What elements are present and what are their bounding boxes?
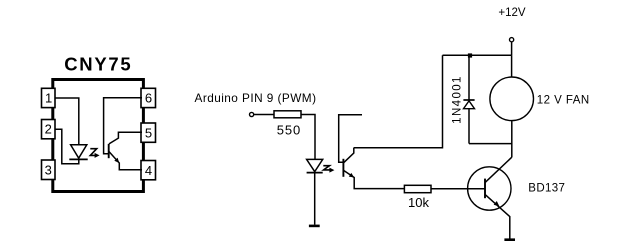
wire fan bottom to Q3 collector: [511, 121, 513, 158]
+12V rail: [443, 54, 512, 56]
ground (BD137 emitter): [504, 238, 515, 241]
phototransistor Q2: [343, 148, 404, 189]
svg-text:4: 4: [145, 163, 152, 178]
svg-text:+12V: +12V: [498, 7, 526, 19]
light arrow (package): [90, 149, 99, 158]
internal phototransistor base wire to pin 6: [104, 98, 142, 154]
svg-text:CNY75: CNY75: [64, 54, 132, 75]
wire R2 to Q3 base: [431, 188, 485, 190]
wire collector to +12V rail: [354, 55, 443, 147]
package body U1: [53, 80, 144, 192]
internal phototransistor Q1: [109, 132, 142, 170]
svg-text:12 V FAN: 12 V FAN: [537, 94, 590, 106]
light arrow (schematic): [323, 166, 334, 173]
svg-text:1N4001: 1N4001: [452, 75, 464, 124]
wire LED cathode to ground: [314, 173, 316, 225]
optocoupler LED D2: [307, 159, 323, 172]
resistor R2 10k: [404, 185, 431, 210]
internal LED D1 (emitter diode): [69, 145, 87, 160]
transistor Q3 BD137: [468, 157, 566, 238]
phototransistor base stub: [339, 115, 362, 163]
resistor R1 550: [274, 111, 301, 138]
wire pin1 to internal LED anode: [55, 98, 79, 145]
ground (LED): [309, 225, 320, 228]
pin 3 box: [42, 160, 56, 180]
pin 5 box: [141, 123, 156, 142]
svg-text:1: 1: [45, 90, 52, 105]
junction dot: [468, 53, 472, 57]
svg-text:5: 5: [145, 125, 152, 140]
pin 2 box: [42, 120, 56, 139]
input terminal: [250, 112, 254, 116]
wire rail to fan top: [511, 55, 513, 77]
pin 6 box: [141, 88, 156, 107]
wire LED cathode to pin2: [55, 129, 79, 164]
diode D3 1N4001: [463, 58, 474, 144]
fan M1: [490, 77, 590, 121]
svg-text:2: 2: [45, 122, 52, 137]
wire diode bottom to fan branch: [469, 143, 512, 145]
svg-text:BD137: BD137: [528, 182, 565, 194]
svg-text:550: 550: [277, 123, 301, 138]
+12V terminal: [498, 7, 526, 56]
wire R1 to LED anode: [301, 115, 315, 160]
svg-text:Arduino PIN 9 (PWM): Arduino PIN 9 (PWM): [195, 91, 317, 105]
svg-text:6: 6: [145, 90, 152, 105]
pin 1 box: [42, 88, 56, 107]
svg-text:3: 3: [45, 162, 52, 177]
pin 4 box: [141, 161, 156, 180]
svg-text:10k: 10k: [408, 195, 429, 210]
wire terminal to R1: [254, 114, 274, 116]
